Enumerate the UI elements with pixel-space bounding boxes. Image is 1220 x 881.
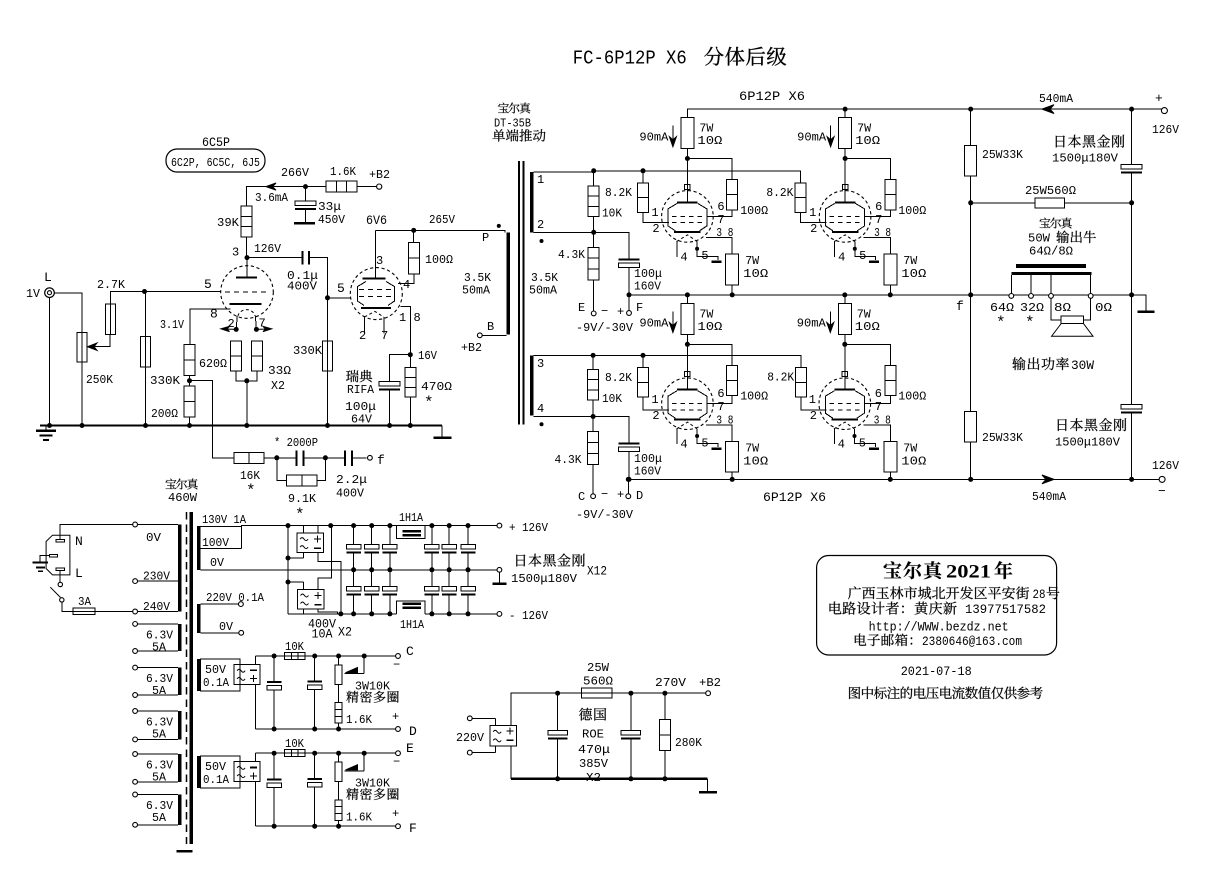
label pin7 V6 xyxy=(875,400,882,414)
label 400V 10A xyxy=(308,618,352,642)
wire plate res to cap V3 xyxy=(685,149,690,190)
tube V2 anode xyxy=(363,230,386,279)
label minus plus EF xyxy=(601,305,624,320)
label 3.5K 50mA left xyxy=(462,271,492,298)
wire 265V to transformer xyxy=(414,230,505,232)
svg-text:L: L xyxy=(75,566,83,581)
label RIFA 100u xyxy=(345,400,376,414)
svg-text:330K: 330K xyxy=(150,374,181,388)
svg-text:100Ω: 100Ω xyxy=(425,253,453,267)
label pin4 V4 xyxy=(838,250,845,264)
resistor 7W10 plate V4 xyxy=(839,107,852,149)
capacitor 2.2u xyxy=(325,451,366,466)
transformer T1 core xyxy=(518,161,525,425)
resistor 100ohm screen V3 xyxy=(727,180,738,210)
wire N to 0V xyxy=(60,525,132,540)
terminal 0V primary xyxy=(133,522,138,527)
label 126V right bottom xyxy=(1152,459,1180,473)
svg-text:* 2000P: * 2000P xyxy=(274,436,318,450)
label E xyxy=(406,741,414,756)
title text xyxy=(573,47,786,70)
svg-text:6P12P X6: 6P12P X6 xyxy=(739,89,805,104)
wire pin4 V6 xyxy=(833,429,835,444)
svg-text:2021: 2021 xyxy=(946,562,991,583)
node pin2 xyxy=(234,327,239,332)
svg-text:39K: 39K xyxy=(217,216,240,230)
label 0ohm xyxy=(1095,301,1112,315)
OPT tap 32 xyxy=(1029,275,1034,298)
label F xyxy=(636,301,643,315)
plus rail xyxy=(288,525,497,527)
svg-text:1: 1 xyxy=(809,393,816,407)
svg-text:6C2P, 6C5C, 6J5: 6C2P, 6C5C, 6J5 xyxy=(171,156,260,170)
wire BR2 plus xyxy=(318,523,333,589)
svg-text:25W33K: 25W33K xyxy=(982,431,1024,445)
svg-text:3: 3 xyxy=(376,254,383,268)
wire pin8 xyxy=(190,309,231,344)
svg-text:90mA: 90mA xyxy=(639,131,669,145)
label 620ohm xyxy=(199,357,227,371)
svg-text:90mA: 90mA xyxy=(797,317,827,331)
svg-text:265V: 265V xyxy=(429,213,456,227)
pot wiper #1 xyxy=(345,656,365,674)
label 100u row1 xyxy=(634,267,662,281)
label 540mA top xyxy=(1039,92,1074,106)
label pin2 V6 xyxy=(810,409,817,423)
wire cathode out V5 xyxy=(706,425,732,442)
svg-text:5A: 5A xyxy=(152,684,167,698)
svg-text:6: 6 xyxy=(717,387,724,401)
svg-text:+ 126V: + 126V xyxy=(509,521,549,535)
label star 64 xyxy=(996,314,1006,332)
label 265V xyxy=(429,213,456,227)
resistor 1.6K bias #1 xyxy=(335,684,342,731)
B2 top rail xyxy=(555,691,705,696)
label 3.6mA xyxy=(255,191,289,205)
tube V1 pin8 label xyxy=(210,307,218,322)
choke 1H1A top xyxy=(397,526,426,539)
resistor 8.2K-10K r2 xyxy=(588,355,599,416)
wire 100ohm to pin4 xyxy=(398,274,414,284)
plug pin L xyxy=(56,568,64,571)
wire BR2 minus xyxy=(318,609,337,614)
svg-text:450V: 450V xyxy=(318,213,346,227)
label 7W cath V4 xyxy=(903,254,918,268)
svg-text:5A: 5A xyxy=(152,728,167,742)
wire V2 plate to node xyxy=(375,228,416,233)
node grid rail V5 xyxy=(641,353,646,358)
label 3.5K 50mA right xyxy=(529,271,559,298)
winding 6.3V #4 leads xyxy=(133,752,178,785)
wire pin5 gnd V6 xyxy=(853,429,879,450)
svg-text:10Ω: 10Ω xyxy=(743,267,768,281)
wire fuse to 240V xyxy=(95,611,132,613)
label pin6 V4 xyxy=(875,200,882,214)
label 33ohm xyxy=(268,364,291,378)
wire BR2 AC2 xyxy=(288,609,303,614)
plug outline xyxy=(46,535,70,575)
terminal 230V xyxy=(133,579,138,584)
label 32ohm xyxy=(1020,301,1044,315)
svg-text:620Ω: 620Ω xyxy=(199,357,227,371)
terminal E xyxy=(591,311,596,316)
label N xyxy=(75,534,83,549)
svg-text:50mA: 50mA xyxy=(462,284,491,298)
label pin38 V6 xyxy=(874,413,891,427)
phase dot primary xyxy=(497,224,501,228)
svg-text:126V: 126V xyxy=(1152,459,1180,473)
label pin3 T1 xyxy=(537,357,544,371)
resistor 560 B2 xyxy=(582,688,613,698)
label 7W plate V5 xyxy=(699,308,714,322)
svg-text:1.6K: 1.6K xyxy=(346,713,373,727)
svg-text:16V: 16V xyxy=(418,349,438,363)
svg-text:2: 2 xyxy=(810,222,817,236)
label pin1 V6 xyxy=(809,393,816,407)
tube V2 grids xyxy=(359,290,394,297)
label 400V xyxy=(287,280,318,294)
label 130V 1A xyxy=(202,513,247,527)
label +B2 top xyxy=(369,168,390,182)
node r1 rail xyxy=(591,168,596,173)
svg-text:*: * xyxy=(295,506,305,524)
wire bias+ #2 xyxy=(254,753,256,762)
wire grid node to 6V6 xyxy=(328,297,351,299)
svg-text:+: + xyxy=(392,710,399,724)
svg-text:-9V/-30V: -9V/-30V xyxy=(576,321,634,335)
label RIFA brand xyxy=(346,370,375,397)
resistor 8.2K grid V3 xyxy=(638,171,669,223)
wire 230V to bar xyxy=(138,580,178,582)
psu cap bottom #3 xyxy=(383,570,398,617)
wire node to 100ohm xyxy=(413,230,415,242)
info line1 xyxy=(884,561,1013,582)
tube V5 envelope xyxy=(662,378,714,430)
svg-text:1V: 1V xyxy=(26,287,41,301)
svg-text:2: 2 xyxy=(810,409,817,423)
tube V1 6C5P envelope xyxy=(221,266,274,319)
svg-text:3W10K: 3W10K xyxy=(355,777,391,791)
label pin7 V3 xyxy=(717,213,724,227)
label 6.3V #5 xyxy=(146,799,174,825)
label plus F xyxy=(392,807,399,821)
label 50V #1 xyxy=(203,663,230,690)
label 470ohm xyxy=(421,380,452,394)
label 2.2u xyxy=(336,473,367,487)
svg-text:90mA: 90mA xyxy=(639,317,669,331)
resistor 100ohm screen V5 xyxy=(727,365,738,395)
winding 50V #1 bar xyxy=(197,659,201,691)
plug pin N xyxy=(56,540,64,543)
capacitor 1500u top xyxy=(1121,165,1142,174)
B2 ground xyxy=(699,779,717,794)
node 2000P right xyxy=(323,455,328,460)
svg-text:3: 3 xyxy=(537,357,544,371)
label multiturn #1 xyxy=(346,691,398,703)
wire plate res to cap V6 xyxy=(842,335,847,378)
terminal 240V xyxy=(133,609,138,614)
label 6.3V #1 xyxy=(146,628,174,654)
wire pin5 gnd V3 xyxy=(695,242,721,263)
label 7W cath V6 xyxy=(903,442,918,456)
wire 240V to bar xyxy=(138,611,178,613)
label 90mA V4 xyxy=(797,131,827,145)
wire L to switch xyxy=(59,570,61,582)
wire bias+ #1 xyxy=(254,656,256,665)
terminal -126V psu xyxy=(497,612,502,617)
wire 130V lead xyxy=(201,526,498,527)
resistor 470ohm xyxy=(405,367,416,397)
tube V1 grid xyxy=(225,291,269,293)
svg-text:3.6mA: 3.6mA xyxy=(255,191,289,205)
svg-text:F: F xyxy=(636,301,643,315)
svg-text:3W10K: 3W10K xyxy=(355,679,391,693)
arrow 90mA V3 xyxy=(669,126,676,147)
arrow 3.6mA xyxy=(266,183,276,190)
tube V1 pin2 label xyxy=(228,317,235,331)
resistor 8.2K grid V5 xyxy=(638,355,669,409)
svg-text:3: 3 xyxy=(232,246,239,260)
label 10ohm plate V6 xyxy=(855,320,880,334)
tube V3 top cap xyxy=(685,184,691,189)
arrow 540mA bottom xyxy=(1042,475,1054,484)
wire 0V to bar xyxy=(138,524,178,526)
label pin1 V3 xyxy=(651,206,658,220)
label RIFA 64V xyxy=(351,413,373,427)
svg-text:540mA: 540mA xyxy=(1032,490,1067,504)
svg-text:+B2: +B2 xyxy=(461,341,482,355)
potentiometer 250K xyxy=(77,332,87,362)
resistor 100ohm V2 xyxy=(409,243,420,274)
svg-text:1: 1 xyxy=(809,206,816,220)
svg-text:2380646@163.com: 2380646@163.com xyxy=(922,635,1022,649)
svg-text:P: P xyxy=(482,231,489,245)
label 10ohm plate V4 xyxy=(855,134,880,148)
tube V5 anode xyxy=(677,377,698,391)
label pin5 V3 xyxy=(701,249,708,263)
svg-text:2.7K: 2.7K xyxy=(97,278,126,292)
winding 6.3V #2 leads xyxy=(133,665,178,697)
svg-text:270V: 270V xyxy=(655,676,687,690)
tube V4 grids xyxy=(830,216,861,222)
label E xyxy=(578,301,585,315)
label 16V xyxy=(418,349,438,363)
resistor 33ohm A xyxy=(230,341,241,371)
svg-text:ROE: ROE xyxy=(582,728,604,742)
wire BR1 AC1 xyxy=(302,526,304,534)
svg-text:2: 2 xyxy=(652,409,659,423)
terminal B xyxy=(477,333,506,338)
tube V2 pin4 label xyxy=(403,278,410,292)
svg-text:50mA: 50mA xyxy=(529,284,558,298)
tube V1 cathode xyxy=(229,303,261,305)
cap 100u bias #1b xyxy=(307,656,322,732)
transformer T2 primary bar xyxy=(178,525,181,612)
label 126V right top xyxy=(1152,123,1180,137)
label +B2 b2 xyxy=(699,676,721,690)
label 64ohm xyxy=(990,301,1014,315)
winding 50V #1 box xyxy=(201,659,240,691)
plug pin E xyxy=(49,554,57,557)
label pin38 V3 xyxy=(716,226,733,240)
svg-text:7: 7 xyxy=(875,213,882,227)
svg-text:3A: 3A xyxy=(78,595,92,609)
svg-text:7: 7 xyxy=(717,400,724,414)
node r2 rail xyxy=(591,353,596,358)
resistor 8.2K-10K r1 xyxy=(588,171,599,233)
rectifier bias #2 xyxy=(234,762,260,782)
terminal +126V psu xyxy=(497,523,502,528)
cap ROE b xyxy=(621,693,641,778)
svg-text:90mA: 90mA xyxy=(797,131,827,145)
tube V2 pin3 label xyxy=(376,254,383,268)
svg-text:http://WWW.bezdz.net: http://WWW.bezdz.net xyxy=(869,621,1009,635)
winding 6.3V #3 leads xyxy=(133,709,178,742)
tube V3 beam plates xyxy=(668,203,707,231)
C rail #1 xyxy=(255,654,395,659)
note xyxy=(849,686,1043,699)
ground symbol left xyxy=(36,427,56,441)
svg-text:E: E xyxy=(578,301,585,315)
terminal 0V psu xyxy=(492,567,506,585)
label 100ohm V5 xyxy=(740,390,768,404)
wire 200 to ground xyxy=(187,417,192,428)
terminal 220V a xyxy=(467,716,495,725)
label 1.6K bias #1 xyxy=(346,713,373,727)
svg-text:D: D xyxy=(636,489,643,503)
wire cath res to rail V6 xyxy=(888,472,893,482)
tube V5 top cap xyxy=(685,372,691,377)
svg-text:560Ω: 560Ω xyxy=(583,675,613,689)
wire V2 cathode out xyxy=(401,306,411,354)
svg-text:DT-35B: DT-35B xyxy=(494,117,531,131)
label 7W plate V6 xyxy=(857,308,872,322)
label 90mA V6 xyxy=(797,317,827,331)
label pin4 V3 xyxy=(680,250,687,264)
svg-text:50W: 50W xyxy=(1028,232,1051,246)
label star 16K xyxy=(246,482,256,500)
terminal F xyxy=(627,292,632,315)
label 10ohm cath V6 xyxy=(901,455,926,469)
label -126V psu xyxy=(509,609,549,623)
label 100ohm V6 xyxy=(898,390,926,404)
winding2 wire row1 xyxy=(533,232,629,258)
label pin4 T1 xyxy=(537,402,544,416)
switch xyxy=(50,582,64,602)
label 0V sec xyxy=(210,556,225,570)
svg-text:*: * xyxy=(1025,314,1035,332)
tube V2 heater tent xyxy=(365,311,384,317)
OPT tap 64 xyxy=(1009,275,1014,298)
svg-text:7: 7 xyxy=(875,400,882,414)
label 3W10K #2 xyxy=(355,777,391,791)
resistor 9.1K parallel xyxy=(277,458,326,486)
svg-text:470μ: 470μ xyxy=(578,743,610,757)
winding 6.3V #2 bar xyxy=(178,668,181,695)
wire feedback tap xyxy=(190,381,235,458)
svg-text:f: f xyxy=(956,299,964,314)
label pin38 V4 xyxy=(874,226,891,240)
svg-text:3.1V: 3.1V xyxy=(160,318,185,332)
label 90mA V5 xyxy=(639,317,669,331)
label 100V xyxy=(202,536,230,550)
speaker xyxy=(1051,298,1093,336)
winding 6.3V #3 bar xyxy=(178,711,181,739)
svg-text:F: F xyxy=(409,821,417,836)
label 9.1K xyxy=(288,492,317,506)
bottom rail out xyxy=(628,478,1131,480)
resistor 39K xyxy=(241,206,252,237)
wire 100V lead xyxy=(201,527,242,549)
label 160V row2 xyxy=(634,465,662,479)
svg-text:4: 4 xyxy=(403,278,410,292)
resistor 200ohm xyxy=(184,386,195,417)
svg-text:7: 7 xyxy=(717,213,724,227)
wire pin5 gnd V5 xyxy=(695,429,721,450)
label -9V/-30V row1 xyxy=(576,321,634,335)
svg-text:2021-07-18: 2021-07-18 xyxy=(901,665,972,679)
svg-text:4: 4 xyxy=(680,250,687,264)
label driver brand xyxy=(492,103,545,142)
wire pin4 V4 xyxy=(834,242,836,257)
label pin1 V5 xyxy=(651,393,658,407)
arrow test point left xyxy=(221,326,236,331)
ground 33u xyxy=(294,222,315,225)
psu cap top #5 xyxy=(442,523,457,572)
svg-text:220V: 220V xyxy=(456,731,485,745)
svg-text:6V6: 6V6 xyxy=(366,213,387,228)
terminal D xyxy=(626,477,631,499)
svg-text:8Ω: 8Ω xyxy=(1054,301,1071,315)
wire node to 470 xyxy=(409,355,411,368)
wire cath res to rail V5 xyxy=(730,472,735,482)
label 6.3V #4 xyxy=(146,759,174,785)
svg-text:10Ω: 10Ω xyxy=(697,134,722,148)
tube V4 envelope xyxy=(819,191,871,243)
wire BR1 plus xyxy=(317,526,319,534)
label 230V xyxy=(143,570,171,584)
svg-text:E: E xyxy=(406,741,414,756)
label 2000P xyxy=(274,436,318,450)
wire 33ohm join xyxy=(236,371,257,428)
label OPT brand xyxy=(1028,218,1096,259)
wire 220V 0V lead xyxy=(201,630,244,635)
wire screen res to pin6 V3 xyxy=(707,210,732,217)
wire screen res to pin6 V6 xyxy=(864,396,890,404)
label pin5 V4 xyxy=(859,249,866,263)
ground symbol right xyxy=(434,426,452,439)
node pin7 xyxy=(254,327,259,332)
label 10ohm cath V5 xyxy=(743,455,768,469)
svg-text:33μ: 33μ xyxy=(318,200,341,214)
tube V4 beam plates xyxy=(826,203,865,231)
wire pin4 V3 xyxy=(676,242,678,257)
label pin2 V3 xyxy=(652,222,659,236)
capacitor 2000P xyxy=(277,451,326,466)
label 2.7K xyxy=(97,278,126,292)
tube V2 6V6 envelope xyxy=(350,268,402,320)
terminal C xyxy=(591,494,596,499)
transformer T1 primary bar xyxy=(506,232,510,334)
C rail #2 xyxy=(255,751,395,756)
svg-text:D: D xyxy=(409,724,417,739)
label L plug xyxy=(75,566,83,581)
svg-text:N: N xyxy=(75,534,83,549)
resistor 330K gridleak xyxy=(323,341,333,371)
terminal F xyxy=(396,824,401,829)
winding 50V #2 bar xyxy=(197,756,201,788)
rectifier B2 xyxy=(490,725,516,746)
